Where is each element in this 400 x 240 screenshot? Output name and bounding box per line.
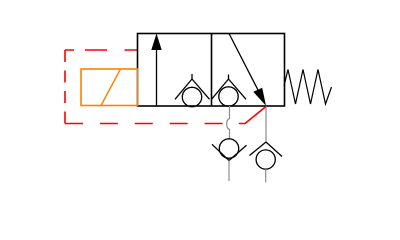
check valve CV3 (lower left) xyxy=(212,139,247,161)
drain stub below CV4 (gray) xyxy=(265,169,267,182)
drain line to CV4 (gray) xyxy=(265,106,267,142)
drain line with jump (gray) xyxy=(227,106,230,139)
flow arrow (right position, diagonal) xyxy=(229,34,258,91)
return spring xyxy=(284,70,332,105)
flow arrow (left position, up) xyxy=(156,48,158,106)
valve position divider xyxy=(211,34,213,107)
red dashed pilot line (bottom edge) xyxy=(65,123,223,125)
check valve CV1 (inside left) xyxy=(175,74,210,107)
red dashed pilot line (top edge) xyxy=(65,49,138,51)
solenoid diagonal stroke xyxy=(101,69,121,106)
red dashed pilot line (left edge) xyxy=(64,50,66,124)
solenoid actuator (orange box) xyxy=(81,69,138,106)
red pilot line (diagonal to arrow tip) xyxy=(239,106,267,124)
drain stub below CV3 (gray) xyxy=(228,161,230,182)
valve body (2-position envelope) xyxy=(138,34,285,107)
check valve CV2 (inside right) xyxy=(212,75,247,107)
check valve CV4 (lower right) xyxy=(250,142,283,169)
